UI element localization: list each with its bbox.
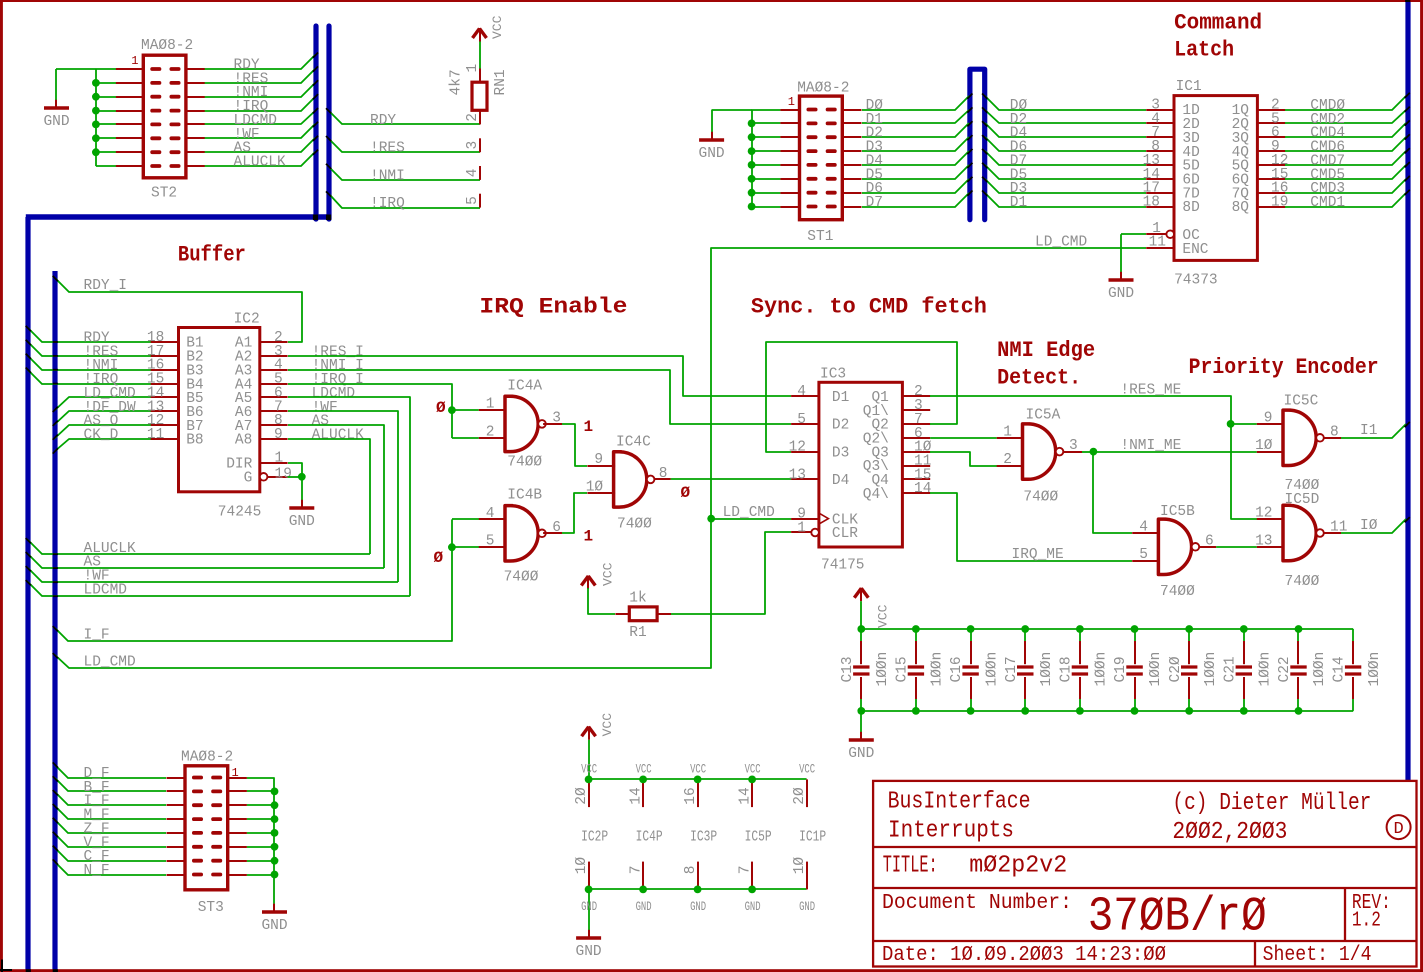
svg-text:B8: B8	[186, 433, 203, 449]
svg-text:4k7: 4k7	[449, 69, 465, 95]
wire !RES from bus to RN1	[330, 140, 480, 152]
IC2 pin A5	[260, 396, 288, 398]
svg-text:1ØØn: 1ØØn	[1312, 652, 1328, 687]
net Q2 feedback to D3	[766, 342, 957, 452]
svg-text:8: 8	[683, 866, 699, 875]
IC5C input stubs	[1257, 423, 1285, 425]
svg-text:IC3: IC3	[820, 367, 846, 383]
IC2 pin A8	[260, 438, 288, 440]
black blend marks at bus entries	[313, 53, 318, 58]
IC1 pin 8D	[1146, 206, 1174, 208]
IC4A input pin stubs	[479, 409, 507, 411]
wire from bus to IC2 B8	[55, 439, 151, 451]
svg-text:2Ø: 2Ø	[574, 787, 590, 805]
svg-text:(c) Dieter Müller: (c) Dieter Müller	[1172, 790, 1371, 817]
svg-text:C17: C17	[1004, 656, 1020, 682]
svg-text:GND: GND	[581, 899, 597, 914]
svg-text:18: 18	[1143, 195, 1160, 211]
wire ST2 pin 8 to GND column	[96, 165, 125, 167]
capacitor C15 100n	[915, 629, 917, 641]
svg-text:ALUCLK: ALUCLK	[234, 155, 287, 171]
svg-text:11: 11	[147, 427, 164, 443]
svg-text:1Ø: 1Ø	[1255, 438, 1273, 454]
IC3 pin D2	[791, 423, 819, 425]
svg-text:IRQ Enable: IRQ Enable	[479, 294, 627, 319]
power VCC at R1	[581, 576, 588, 586]
wire D7 from bus to IC1	[985, 151, 1146, 165]
ground GND at ST3	[273, 904, 275, 912]
net !RES_I from IC2 A2 to IC3 D1	[288, 356, 791, 396]
svg-text:14: 14	[914, 481, 931, 497]
wire !NMI from bus to RN1	[330, 168, 480, 180]
svg-text:BusInterface: BusInterface	[888, 789, 1031, 816]
IC3 pin Q3	[902, 451, 930, 453]
black frame origin mark bottom-left	[1, 960, 3, 972]
junction dots capacitor rails	[857, 625, 865, 633]
svg-text:1: 1	[131, 54, 138, 68]
wire !IRQ from ST2 into bus	[204, 97, 315, 111]
IC4B output to IC4C pin 10	[543, 532, 562, 534]
svg-text:Q4\: Q4\	[863, 487, 889, 503]
title block frame	[873, 781, 1416, 967]
IC2 pin B4	[151, 383, 179, 385]
svg-text:1: 1	[486, 397, 495, 413]
svg-text:9: 9	[274, 427, 283, 443]
IC3 pin D4	[791, 478, 819, 480]
net !NMI_I from IC2 A3 to IC3 D2	[288, 370, 791, 424]
svg-text:Date: 1Ø.Ø9.2ØØ3 14:23:ØØ: Date: 1Ø.Ø9.2ØØ3 14:23:ØØ	[882, 944, 1166, 967]
svg-text:!RES_ME: !RES_ME	[1120, 383, 1181, 399]
svg-text:VCC: VCC	[601, 562, 616, 586]
svg-text:1k: 1k	[629, 590, 646, 606]
wire from bus to IC2 B6	[55, 411, 151, 424]
svg-text:Command: Command	[1174, 11, 1262, 36]
net IRQ_ME from Q4\ to IC5B pin 5	[930, 493, 1132, 561]
nand gate IC5D	[1283, 505, 1316, 560]
svg-text:1: 1	[584, 527, 594, 545]
wire CMD2 from IC1 into bus	[1285, 110, 1406, 123]
wire D6 from ST1 into bus	[862, 179, 969, 193]
svg-text:7: 7	[629, 866, 645, 875]
svg-text:1: 1	[797, 521, 806, 537]
IC2 pin A7	[260, 424, 288, 426]
svg-text:N_F: N_F	[84, 863, 110, 879]
IC5A output / net !NMI_ME	[1063, 451, 1082, 453]
junction !RES_ME / IC5C pin9	[1227, 420, 1235, 428]
wire ST1 pin 2 to GND column	[752, 122, 781, 124]
svg-text:IC4B: IC4B	[507, 487, 542, 503]
IC2 pin A1	[260, 341, 288, 343]
svg-text:4: 4	[1139, 519, 1148, 535]
bus B6 middle inverted-U	[970, 69, 985, 219]
svg-text:12: 12	[1255, 506, 1272, 522]
svg-text:LD_CMD: LD_CMD	[1035, 235, 1087, 251]
IC3 pin D3	[791, 451, 819, 453]
svg-text:1ØØn: 1ØØn	[1203, 652, 1219, 687]
IC4C output to IC3 D4	[654, 478, 670, 480]
IC1 pin 6D	[1146, 178, 1174, 180]
ground GND at IC1 OC	[1120, 272, 1122, 280]
IC1 pin 1D	[1146, 109, 1174, 111]
wire ST3 pin 8 to GND column	[247, 874, 275, 876]
svg-text:MAØ8-2: MAØ8-2	[797, 81, 849, 97]
svg-text:CLR: CLR	[832, 526, 858, 542]
svg-text:!NMI_ME: !NMI_ME	[1120, 438, 1181, 454]
IC1 pin 4D	[1146, 150, 1174, 152]
junction dots ST2 gnd column	[92, 79, 100, 87]
wire from bus to IC2 B4	[28, 370, 151, 384]
svg-text:6: 6	[1205, 533, 1214, 549]
IC5A input stubs	[997, 437, 1024, 439]
capacitor VCC rail	[861, 628, 1353, 630]
wire D2 from bus to IC1	[985, 110, 1146, 123]
connector ST3 MA08-2	[185, 766, 228, 890]
wire from bus to IC2 B1	[28, 328, 151, 342]
IC1 pin 3Q	[1257, 136, 1285, 138]
connector ST2 MA08-2	[143, 55, 186, 178]
svg-text:5: 5	[797, 412, 806, 428]
IC2 pin A2	[260, 355, 288, 357]
IC3 CLR pin with bubble	[811, 529, 819, 537]
wire D4 from ST1 into bus	[862, 151, 969, 165]
black bus/border overlap marks	[26, 969, 31, 972]
wire D5 from ST1 into bus	[862, 165, 969, 179]
wire ST2 pin 5 to GND column	[96, 123, 125, 125]
net Q3 to IC5A pin 2	[930, 452, 997, 466]
junction IC4B inputs / I_F	[448, 543, 456, 551]
svg-text:VCC: VCC	[875, 604, 890, 628]
wire D5 from bus to IC1	[985, 165, 1146, 179]
power-pins GND rail	[589, 888, 807, 890]
svg-text:1ØØn: 1ØØn	[930, 652, 946, 687]
IC1 pin 5D	[1146, 164, 1174, 166]
wire ST2 pin 2 to GND column	[96, 82, 125, 84]
svg-text:LD_CMD: LD_CMD	[84, 655, 136, 671]
svg-text:CMD1: CMD1	[1310, 195, 1345, 211]
junction DIR/G	[298, 473, 306, 481]
svg-text:Interrupts: Interrupts	[888, 818, 1014, 845]
IC5B output to IC5D pin 13	[1199, 546, 1216, 548]
svg-text:GND: GND	[1108, 286, 1134, 302]
svg-text:IØ: IØ	[1360, 518, 1378, 534]
nand gate IC5C	[1283, 410, 1316, 465]
IC3 pin Q1	[902, 395, 930, 397]
svg-text:mØ2p2v2: mØ2p2v2	[969, 853, 1067, 880]
resistor RN1 4k7	[472, 82, 487, 110]
svg-text:C15: C15	[895, 656, 911, 682]
IC2 pin A4	[260, 383, 288, 385]
svg-text:74ØØ: 74ØØ	[617, 517, 652, 533]
wire ST2 pin 7 to GND column	[96, 151, 125, 153]
wire ST1 pin 1 to GND column	[752, 109, 781, 111]
wire D_F from bus to ST3	[55, 765, 166, 778]
net LD_CMD from bus B5 to IC1 ENC (long)	[55, 248, 1146, 668]
svg-text:IC5D: IC5D	[1285, 492, 1320, 508]
svg-text:C19: C19	[1113, 656, 1129, 682]
svg-text:74ØØ: 74ØØ	[1285, 574, 1320, 590]
IC5B input stubs	[1132, 532, 1160, 534]
svg-text:GND: GND	[745, 899, 761, 914]
svg-text:1ØØn: 1ØØn	[1039, 652, 1055, 687]
IC2 pin B2	[151, 355, 179, 357]
capacitor GND rail	[861, 710, 1353, 712]
svg-text:D1: D1	[832, 390, 849, 406]
svg-text:D2: D2	[832, 418, 849, 434]
svg-text:1: 1	[584, 418, 594, 436]
svg-text:IC4A: IC4A	[507, 379, 542, 395]
svg-text:74175: 74175	[821, 558, 865, 574]
svg-text:74ØØ: 74ØØ	[1160, 584, 1195, 600]
black overlap marks where green nets cross bus B5	[53, 341, 58, 343]
IC2 pin B7	[151, 424, 179, 426]
wire CMD5 from IC1 into bus	[1285, 165, 1406, 179]
svg-text:GND: GND	[261, 918, 287, 934]
junction dots power rails	[585, 776, 593, 784]
svg-text:NMI Edge: NMI Edge	[997, 338, 1095, 363]
IC2 pin B6	[151, 410, 179, 412]
capacitor C19 100n	[1134, 629, 1136, 641]
ground GND at ST2	[55, 100, 57, 108]
net RDY_I from bus B5 to IC2 pin A1	[55, 278, 302, 342]
wire I_F from bus to ST3	[55, 792, 166, 805]
svg-text:2: 2	[486, 424, 495, 440]
svg-text:1Ø: 1Ø	[574, 857, 590, 875]
svg-text:MAØ8-2: MAØ8-2	[181, 750, 233, 766]
wire from bus to IC2 B7	[55, 425, 151, 438]
IC2 pin A6	[260, 410, 288, 412]
ground GND at ST1	[711, 132, 713, 140]
IC4A output to IC4C pin 9	[543, 423, 562, 425]
svg-text:1Ø: 1Ø	[792, 857, 808, 875]
svg-text:Sheet: 1/4: Sheet: 1/4	[1263, 944, 1372, 967]
wire RDY from ST2 into bus	[204, 55, 315, 69]
bus B3 horizontal to left edge	[26, 214, 331, 220]
svg-text:C13: C13	[840, 656, 856, 682]
wire ST3 pin 5 to GND column	[247, 832, 275, 834]
power pins IC2P	[588, 779, 590, 807]
wire Z_F from bus to ST3	[55, 820, 166, 833]
circled D stamp	[1387, 815, 1411, 839]
svg-text:D3: D3	[832, 445, 849, 461]
svg-text:VCC: VCC	[600, 713, 615, 737]
svg-text:14: 14	[629, 787, 645, 804]
IC3 CLK pin with clock symbol	[791, 518, 819, 520]
bus B7 right vertical	[1405, 0, 1410, 781]
wire ST2 pin 1 to GND column	[96, 68, 125, 70]
capacitor C22 100n	[1297, 629, 1299, 641]
net !RES_ME from Q1 to IC5C/IC5D	[930, 396, 1257, 519]
wire !IRQ from bus to RN1	[330, 195, 480, 208]
wire D3 from ST1 into bus	[862, 137, 969, 151]
wire CMD3 from IC1 into bus	[1285, 179, 1406, 193]
wire from bus to IC2 B3	[28, 356, 151, 370]
IC5C output net I1 to bus	[1324, 437, 1341, 439]
svg-text:C16: C16	[949, 656, 965, 682]
IC1 pin 6Q	[1257, 178, 1285, 180]
wire V_F from bus to ST3	[55, 834, 166, 847]
svg-text:!NMI: !NMI	[370, 168, 405, 184]
svg-text:IC5A: IC5A	[1026, 407, 1061, 423]
IC1 pin 2D	[1146, 122, 1174, 124]
svg-text:74ØØ: 74ØØ	[507, 454, 542, 470]
wire ST3 pin 3 to GND column	[247, 804, 275, 806]
svg-text:Sync. to CMD fetch: Sync. to CMD fetch	[751, 294, 987, 319]
svg-text:1: 1	[232, 766, 239, 780]
capacitor C17 100n	[1024, 629, 1026, 641]
svg-text:8: 8	[1330, 424, 1339, 440]
IC1 pin 1Q	[1257, 109, 1285, 111]
capacitor C13 100n	[860, 629, 862, 641]
svg-text:RN1: RN1	[493, 69, 509, 95]
svg-text:!IRQ: !IRQ	[370, 196, 405, 212]
ground GND at power-pin rail	[588, 930, 590, 938]
IC1 pin 8Q	[1257, 206, 1285, 208]
GND drop from capacitor rail	[860, 711, 862, 732]
svg-text:C2Ø: C2Ø	[1168, 656, 1184, 682]
svg-text:IC5P: IC5P	[745, 830, 772, 846]
svg-text:12: 12	[789, 440, 806, 456]
IC1 OC pin with bubble to GND	[1166, 230, 1174, 238]
IC1 pin 3D	[1146, 136, 1174, 138]
svg-text:GND: GND	[690, 899, 706, 914]
wire VCC to R1	[588, 588, 615, 614]
svg-text:GND: GND	[289, 514, 315, 530]
svg-text:IRQ_ME: IRQ_ME	[1012, 547, 1064, 563]
svg-text:1: 1	[275, 451, 284, 467]
wire !WF from ST2 into bus	[204, 124, 315, 138]
svg-text:5: 5	[465, 196, 481, 205]
power VCC above RN1	[473, 29, 480, 39]
wire D1 from ST1 into bus	[862, 110, 969, 123]
wire !NMI from ST2 into bus	[204, 83, 315, 97]
svg-text:16: 16	[683, 787, 699, 804]
power pins IC3P	[697, 779, 699, 807]
svg-text:C21: C21	[1222, 656, 1238, 682]
wire CMD1 from IC1 into bus	[1285, 193, 1406, 207]
svg-text:IC4C: IC4C	[616, 434, 651, 450]
wire ST3 pin 6 to GND column	[247, 846, 275, 848]
svg-text:1ØØn: 1ØØn	[1367, 652, 1383, 687]
svg-text:2ØØ2,2ØØ3: 2ØØ2,2ØØ3	[1172, 819, 1287, 846]
svg-text:RDY_I: RDY_I	[84, 278, 128, 294]
bus B2 (left pair, line 2)	[326, 26, 331, 219]
svg-text:1.2: 1.2	[1352, 909, 1381, 932]
wire CMD0 from IC1 into bus	[1285, 96, 1406, 110]
svg-text:VCC: VCC	[690, 762, 706, 777]
IC1 pin 7D	[1146, 192, 1174, 194]
svg-text:VCC: VCC	[581, 762, 597, 777]
junction LD_CMD / CLK	[707, 515, 715, 523]
wire from bus to IC2 B2	[28, 342, 151, 356]
IC2 pin B5	[151, 396, 179, 398]
svg-text:VCC: VCC	[745, 762, 761, 777]
svg-text:VCC: VCC	[799, 762, 815, 777]
svg-text:4: 4	[797, 384, 806, 400]
bus B4 left vertical 1	[25, 217, 30, 972]
svg-text:5: 5	[486, 534, 495, 550]
bus B1 (left pair, line 1)	[313, 26, 318, 219]
svg-text:6: 6	[552, 520, 561, 536]
svg-text:13: 13	[789, 467, 806, 483]
svg-text:MAØ8-2: MAØ8-2	[141, 38, 193, 54]
svg-text:IC1P: IC1P	[799, 830, 826, 846]
svg-text:8Q: 8Q	[1232, 200, 1250, 216]
svg-text:37ØB/rØ: 37ØB/rØ	[1088, 890, 1267, 944]
svg-text:ST2: ST2	[151, 186, 177, 202]
svg-text:IC1: IC1	[1176, 79, 1202, 95]
svg-text:9: 9	[594, 452, 603, 468]
svg-text:19: 19	[275, 467, 292, 483]
svg-text:GND: GND	[636, 899, 652, 914]
svg-text:1ØØn: 1ØØn	[1258, 652, 1274, 687]
wire B_F from bus to ST3	[55, 778, 166, 791]
svg-text:1ØØn: 1ØØn	[875, 652, 891, 687]
wire ST2 pin 4 to GND column	[96, 110, 125, 112]
svg-text:19: 19	[1271, 195, 1288, 211]
capacitor C16 100n	[970, 629, 972, 641]
IC4B inputs from I_F junction	[452, 518, 479, 520]
svg-text:C22: C22	[1277, 656, 1293, 682]
IC3 74175 body	[819, 382, 903, 547]
svg-text:I_F: I_F	[84, 628, 110, 644]
ground GND at capacitor rail	[860, 732, 862, 740]
svg-text:Latch: Latch	[1174, 38, 1234, 63]
svg-text:74373: 74373	[1174, 273, 1218, 289]
connector ST1 MA08-2	[800, 96, 843, 220]
nand gate IC5B	[1158, 519, 1191, 574]
svg-text:I1: I1	[1360, 423, 1377, 439]
svg-text:11: 11	[1330, 520, 1347, 536]
svg-text:1ØØn: 1ØØn	[984, 652, 1000, 687]
svg-text:Detect.: Detect.	[997, 366, 1081, 391]
wire LDCMD from ST2 into bus	[204, 111, 315, 124]
wire ST1 pin 4 to GND column	[752, 150, 781, 152]
IC3 pin Q3\	[902, 465, 930, 467]
svg-text:Buffer: Buffer	[178, 243, 246, 268]
svg-text:Ø: Ø	[681, 484, 691, 502]
net LD_CMD branch to IC3 CLK	[711, 518, 791, 520]
wire CMD7 from IC1 into bus	[1285, 151, 1406, 165]
nand gate IC4C	[614, 452, 647, 507]
IC2 DIR and G pins	[260, 462, 288, 464]
svg-text:11: 11	[1149, 235, 1166, 251]
wire ST1 pin 8 to GND column	[752, 206, 781, 208]
svg-text:!RES: !RES	[370, 141, 405, 157]
wire DIR/G to ground	[288, 463, 302, 500]
power-pins VCC rail	[589, 778, 807, 780]
junction IC4A inputs	[448, 406, 456, 414]
svg-text:ENC: ENC	[1182, 242, 1208, 258]
svg-text:1: 1	[788, 95, 795, 109]
wire ST2 pin 3 to GND column	[96, 96, 125, 98]
svg-text:C18: C18	[1059, 656, 1075, 682]
IC5D input stubs	[1257, 518, 1285, 520]
svg-text:D1: D1	[1010, 195, 1027, 211]
net Q2\ to IC5A pin 1	[930, 437, 997, 439]
wire CMD4 from IC1 into bus	[1285, 123, 1406, 137]
IC3 pin Q2	[902, 423, 930, 425]
IC1 ENC pin stub	[1146, 247, 1174, 249]
wire ALUCLK from ST2 into bus	[204, 152, 315, 166]
page border frame	[0, 0, 1423, 2]
svg-text:C14: C14	[1332, 656, 1348, 682]
nand gate IC5A	[1023, 424, 1056, 479]
svg-text:TITLE:: TITLE:	[883, 853, 938, 880]
wire !RES from ST2 into bus	[204, 69, 315, 83]
wire ST3 pin 4 to GND column	[247, 818, 275, 820]
wire N_F from bus to ST3	[55, 862, 166, 875]
svg-text:GND: GND	[43, 114, 69, 130]
